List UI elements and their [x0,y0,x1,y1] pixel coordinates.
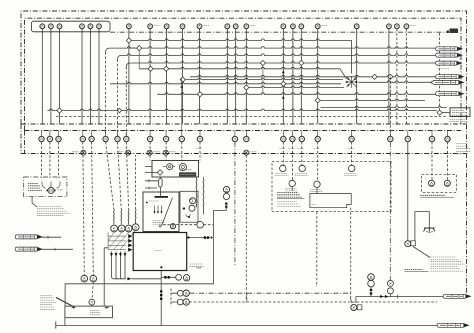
lamp circle A2 [223,193,229,199]
dash-dot wire from pair row2 to right [189,292,350,294]
junction diamond bus y63 [260,60,265,65]
wire label R8 [437,323,468,327]
wire L2 line [42,248,73,250]
bus y77 to wire label R4 [190,75,436,77]
junction diamond bus y63 x301 [299,60,304,65]
wire code ticks [204,236,206,239]
amplifier main unit box [133,233,187,271]
dashed drop x246 long [245,155,247,302]
left earth pair circle 2 [90,275,97,282]
junction diamond bus y78 [180,77,185,82]
spare terminal X2 [126,150,131,155]
dashed vertical x439 [439,33,441,110]
actuator inner label [153,220,164,222]
junction diamond on bus y77 [388,74,393,79]
contact moon [186,215,190,217]
dashed tie at x246 [246,293,248,302]
rail to normal supply earth box [65,284,214,306]
wire label R2 [436,53,462,57]
junction diamond bus y84 x283 [281,81,286,86]
wire L1 line [42,236,61,238]
wiper terminal circle [170,224,175,229]
selsyn terminal A [111,225,118,232]
dashed drop x350 to earth circle [350,208,352,298]
relay motor M1 [167,164,173,170]
panel switch S5 [314,181,320,187]
dashed wire from pair row3 to right [189,301,437,303]
earth stud E1 [405,241,411,247]
star junction multi-wire node [345,76,358,88]
earth stack B stub [389,294,391,297]
up arrow x283 to bus y94 [282,96,285,99]
terminal pair row2 letter [183,290,189,296]
relay motor M2 [179,164,186,171]
bus y55 to wire label R2 [122,54,437,56]
wire lamps S-bend to vertical [213,206,226,211]
wire x390 bus to row2 pin [389,77,391,136]
panel switch S2 [299,165,305,171]
amplifier label [155,250,162,252]
vertical wires row1 to band [42,29,406,124]
bus y69 to star junction [139,67,340,69]
band left closure verticals [21,124,25,154]
solenoid plunger bar [155,196,169,198]
tick near corner [210,236,212,239]
inner equipment boundary (dash-dot frame) [25,18,462,130]
junction diamond right of star [372,74,377,79]
squiggle wires relay to cluster [196,177,197,207]
underlined small label [196,267,201,269]
junction corner into weave [104,248,108,306]
junction diamond on bus y40 [126,38,131,43]
dashed wire G3 to corner vertical [204,224,214,226]
wire label R3 [436,61,462,65]
earth stack A letter circle [368,274,375,281]
note text bottom left [40,295,52,297]
dashed drops row2 group1 to trim box [42,142,59,178]
destination label box right [450,108,470,117]
fuse F1 [159,179,162,188]
note under wire label R3 [437,68,450,70]
leader from trim box to note [32,197,37,207]
connector band top line [25,130,462,132]
junction dot at box B right [187,236,189,238]
terminal T1 letter [183,275,189,281]
corner drop to pin x105 [106,48,110,52]
leader to earth note [413,247,430,258]
selsyn terminal B [118,225,125,232]
control panel boundary (dashed box) [272,161,391,211]
bus y78 to star junction [183,78,343,80]
bus y94 to wire label R6 [157,93,436,95]
switch arm onto supply box [56,298,75,308]
equipment note right of box B [190,263,203,265]
fuse mark below lamps [225,203,227,205]
vertical from equipment corner [212,211,214,284]
bus y63 to wire label R3 [130,62,436,64]
wire box B right to vertical [187,237,214,239]
supply box stud right [105,306,109,309]
terminal pair row2 plain [177,290,183,296]
wire code marks x161 [160,290,162,292]
spare terminal X4 [163,150,168,155]
junction diamond bus y69 left [148,66,153,71]
star east arm to wire label R5 [359,81,434,83]
upper boundary inner dash-dot line y32 [110,31,447,33]
test lamp L2 [444,180,450,186]
bracket dashed for pairs [170,289,172,307]
junction diamond bus y48 [137,46,142,51]
wire label R6 [436,92,464,96]
bus y110 long [48,109,438,110]
bus y107 to label box [321,106,448,107]
earth note text [431,256,457,258]
wire S4 stub [291,187,293,191]
spare terminal X1 [81,150,86,155]
note text right margin [456,143,467,145]
chassis earth rake [424,228,436,232]
aux contact box [180,191,198,222]
spare terminal X3 [147,150,152,155]
junction diamond bus y110 x59 [57,108,62,113]
earth circle with tag bottom [351,305,357,311]
feedback rail continues to x161 [131,278,161,280]
drop row2 x407 to earth stud [407,142,409,241]
junction diamond bus y87 [244,85,249,90]
link diamond1 to bus y48 [129,43,136,48]
wire label L1 (input feed) [15,235,42,239]
bus y48 to wire label R1 [110,47,436,49]
terminal pair row3 plain [177,299,183,305]
earth stack A stub to rail [370,287,372,297]
up arrow x283 to bus y69 [282,70,285,73]
press-to-test boundary dashed box [422,174,457,192]
feedback wires with down arrows [110,252,126,279]
tag right of rotor [58,189,63,191]
panel switch S4 [289,180,295,186]
rotor entry wires [42,182,60,189]
bus y100 [321,99,426,101]
junction dot on box bottom [160,266,162,268]
lamp above supply box [89,299,95,305]
wire S5 to PSU [316,188,318,194]
boundary band upper line [21,123,467,125]
lamp circle A1 [223,186,229,192]
connector group bracket [31,21,110,32]
panel switch S1 [280,165,286,171]
wire lamp circle to box [91,305,93,306]
normal supply earth box [65,306,113,318]
underlined note below label box [450,119,466,121]
terminal T1 plain [176,274,182,280]
arrow into box B 4 [128,248,132,252]
solenoid label [149,200,159,202]
connector band bottom line [21,153,467,155]
transmitter rotor symbol [48,187,54,193]
wire relay to fuse to actuator [159,177,161,196]
wire label R1 [436,47,462,51]
earth stack B circle 1 [387,280,393,286]
actuator earth mark [159,224,162,227]
stub from diamond y63 down [262,66,264,95]
wiper arm [162,198,173,227]
wire code marks pair1 [164,276,166,279]
drop from pair to lamp circle [92,282,93,300]
stub to terminal pair 1 [161,276,175,278]
solenoid winding arrows [153,206,162,214]
dashed wire from G3 left [163,224,197,226]
power supply unit box [310,194,351,208]
wire supply box to bottom rail [64,318,66,326]
bus y40 to star vertical [129,39,352,41]
connector row 2 pins (plug P2) [39,136,450,141]
relay left lower stubs [145,181,158,188]
arrow into box B 1 [128,234,132,238]
arrow into box B 2 [128,239,132,243]
up arrow on wire x181 [180,85,183,88]
bus y84 to star junction [110,82,341,84]
dash-dot drop row2 x390 to earth stack [389,142,391,281]
arrows on earth rail [380,295,383,298]
spare terminal X5 [244,150,249,155]
terminal mark [183,208,185,210]
selsyn terminal C [125,225,132,232]
vertical from diamond y48 down [138,51,140,69]
drop row2 x234 dash-dot [234,142,236,265]
dashed drops row2 to selsyn coils [106,142,114,210]
bus y87 from diamond x246 [249,86,344,88]
dashed drop x317 below panel [316,212,318,287]
wire box B to earth row 1 [160,271,162,326]
panel header text underlined [277,193,304,199]
panel switch S3 [349,165,355,171]
contact dot [188,216,190,218]
wire to chassis earth [415,212,429,243]
stub rail to earth circle [355,297,357,304]
indicator circle G2 [189,205,195,211]
junction diamond bus y112 right [437,110,442,115]
indicator circle G1 [190,198,196,204]
actuator/solenoid box [143,192,179,232]
arrow into box B 3 [128,243,132,247]
selsyn coil squiggles [113,210,136,225]
relay junction diamond [157,170,163,176]
indicator circle G3 [197,221,204,228]
corner drop to pin x126 [126,63,130,67]
junction diamond on bus y94 [197,92,202,97]
bottom rail start tick [55,322,57,329]
relay unit K1 box [152,161,199,178]
row2 stubs through band [42,131,448,137]
wire label R5 [431,80,464,84]
supply box text [90,309,99,311]
earth stack A code marks [370,289,372,291]
boundary label icon top right [450,29,459,34]
feedback gather wire to arrow [112,277,126,279]
earth stud tag [411,241,416,246]
earth stack B circle 2 [387,288,393,294]
actuator aux contact dot [146,202,148,204]
connector row 1 pins (plug P1) [40,24,409,29]
note below trim box [37,206,62,208]
relay box left stub [145,167,157,173]
weave fan under selsyn [108,231,135,250]
bottom long supply rail [56,325,437,327]
label under test box [420,195,454,197]
wire label R7 [443,294,470,298]
pin labels row 2 [196,148,354,150]
junction diamond bus y100 [315,98,320,103]
supply box stud left [72,306,76,309]
tick on earth rail [397,295,399,298]
left earth pair circle 1 [81,275,88,282]
trim position transmitter box (dash-dot boundary) [24,177,67,197]
underlined label left of note [405,270,429,272]
black arrow on feedback rail [127,278,129,280]
relay label band [179,172,196,176]
bottom right earth rail [356,296,444,298]
earth stack A plain circle [368,280,375,287]
wire label L2 (input feed) [15,247,42,251]
junction diamond bus y69 mid [164,66,169,71]
drops row2 to relay box [150,142,200,161]
dashed bus y116 [56,116,446,118]
wire label R4 [436,75,464,79]
test lamp L1 [429,180,435,186]
panel note text [277,201,297,203]
wire x181 bus to row2 [181,78,183,130]
drops row2 to lamp test box [431,142,433,180]
drops row2 to control panel box [283,142,351,181]
terminal pair row3 letter [183,299,189,305]
transmitter label [28,183,39,185]
dashed drops row2 x82 x91 to earth pair [83,142,85,275]
corner drop to pin x117 [118,55,122,59]
pin labels row 1 [154,24,416,26]
selsyn terminal D [132,224,139,231]
junction diamond bus y110 x119 [117,108,121,112]
earth tag [357,305,362,310]
